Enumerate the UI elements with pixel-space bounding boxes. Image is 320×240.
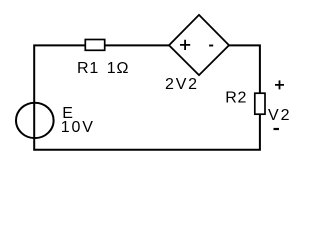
svg-text:1Ω: 1Ω: [107, 60, 129, 77]
minus sign of V2: [274, 128, 280, 130]
plus sign of 2V2: [180, 40, 190, 50]
svg-text:10V: 10V: [61, 119, 95, 136]
resistor R2: [255, 93, 265, 114]
resistor R1: [85, 40, 104, 51]
svg-text:V2: V2: [268, 107, 292, 124]
plus sign of V2: [275, 80, 284, 89]
voltage source E (circle): [16, 103, 54, 138]
svg-text:R1: R1: [77, 60, 99, 77]
svg-text:R2: R2: [225, 89, 247, 106]
minus sign of 2V2: [209, 45, 213, 47]
wire outer loop: [34, 45, 260, 149]
svg-text:2V2: 2V2: [165, 76, 199, 93]
controlled source 2V2 (diamond): [169, 15, 229, 75]
